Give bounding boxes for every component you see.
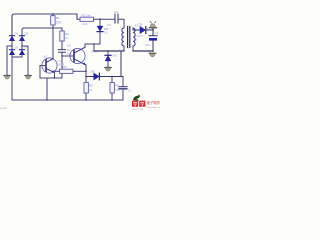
watermark logo leaf: [133, 96, 140, 101]
wire drop to mid rail: [93, 44, 95, 51]
svg-text:473: 473: [107, 23, 112, 27]
svg-text:R4: R4: [63, 65, 67, 69]
wire Q2 collector up: [84, 44, 86, 47]
diode D7 mid column: [105, 51, 111, 67]
wire primary bottom: [123, 46, 125, 51]
svg-text:1K: 1K: [89, 88, 92, 92]
wire Q1 emitter down: [54, 73, 56, 78]
resistor R1: [51, 16, 55, 25]
svg-text:51K: 51K: [56, 20, 63, 24]
diode D5: [140, 27, 146, 34]
svg-text:V2: V2: [67, 44, 71, 48]
svg-text:100K: 100K: [82, 22, 88, 26]
diode D6: [94, 73, 100, 80]
wire bridge left mid column: [11, 41, 13, 50]
wire y78 segment: [40, 77, 62, 79]
wire R1 bottom long vertical to Q1 collector: [52, 25, 54, 59]
wire R3 to C2: [61, 41, 63, 49]
svg-text:C4: C4: [155, 31, 159, 35]
wire down to bottom rail: [46, 78, 48, 100]
wire D6 right segment: [100, 76, 123, 78]
svg-text:1K: 1K: [65, 36, 68, 40]
wire Q2 emitter column: [85, 65, 87, 83]
diode D3: [9, 50, 14, 55]
capacitor C5: [119, 77, 127, 101]
wire D5 to output node: [146, 29, 154, 31]
capacitor C3: [115, 14, 118, 23]
diode D1: [9, 36, 14, 41]
svg-text:www.dzdiy.com: www.dzdiy.com: [147, 107, 160, 109]
watermark logo char 1: [132, 101, 138, 107]
svg-text:FR107: FR107: [136, 34, 144, 38]
svg-text:D6: D6: [91, 70, 95, 74]
svg-text:DZDIY.COM: DZDIY.COM: [132, 109, 144, 110]
wire y44 line: [85, 43, 100, 45]
wire AC jog right: [22, 46, 28, 75]
wire top rail B+: [12, 14, 77, 36]
resistor R3: [60, 31, 64, 41]
resistor R2: [77, 17, 115, 21]
svg-text:D1: D1: [15, 31, 19, 35]
junction dots: [11, 13, 154, 101]
zener DW1: [97, 19, 103, 44]
wire mid rail left: [94, 50, 124, 52]
transistor V1: [40, 58, 57, 73]
resistor R5: [84, 83, 88, 101]
svg-text:D3: D3: [15, 45, 19, 49]
terminal output plus (top): [149, 21, 156, 30]
wire bottom rail: [12, 99, 123, 101]
transformer T1 secondary winding: [133, 28, 135, 46]
capacitor C2: [59, 50, 66, 53]
svg-text:jx.dz: jx.dz: [0, 106, 7, 110]
svg-text:D4: D4: [25, 45, 29, 49]
wire mid rail right: [133, 50, 153, 52]
transistor V2: [70, 47, 86, 65]
svg-text:电子制作: 电子制作: [147, 100, 160, 105]
svg-text:B: B: [136, 37, 138, 41]
svg-text:15V: 15V: [104, 31, 109, 35]
wire secondary bottom: [132, 46, 134, 51]
wire Q2 base lead: [62, 55, 74, 57]
svg-text:R2 1W: R2 1W: [82, 14, 91, 18]
wire C3 to transformer: [119, 19, 125, 28]
svg-text:C3: C3: [114, 10, 118, 14]
svg-text:C2: C2: [67, 48, 71, 52]
wire R1 top lead: [52, 14, 54, 16]
wire riser from mid rail: [120, 51, 122, 77]
transformer T1 primary winding: [122, 28, 124, 46]
wire C2 bottom / Q2 base tap: [61, 53, 63, 78]
transformer T1 core: [128, 27, 130, 48]
terminal output bottom: [149, 53, 156, 57]
terminal AC left: [4, 75, 10, 79]
svg-text:C5: C5: [128, 88, 132, 92]
resistor R4: [55, 69, 87, 73]
svg-text:DW2: DW2: [112, 54, 118, 58]
wire AC jog left: [7, 46, 12, 75]
svg-text:V1: V1: [44, 55, 48, 59]
wire bridge right mid column: [21, 41, 23, 50]
svg-text:103: 103: [57, 60, 62, 63]
svg-text:100u: 100u: [145, 43, 151, 47]
wire y76.5 feedback line: [86, 76, 94, 78]
svg-text:DW: DW: [104, 27, 109, 31]
wire bridge negative down to bottom rail: [11, 55, 13, 100]
watermark logo char 2: [139, 101, 145, 107]
wire bridge second net y=28: [22, 28, 62, 36]
wire secondary top to D5: [133, 28, 140, 30]
svg-text:D2: D2: [25, 31, 29, 35]
terminal mid: [105, 67, 111, 71]
resistor R6: [110, 77, 114, 101]
svg-text:R5: R5: [89, 84, 93, 88]
capacitor C4 electrolytic: [149, 30, 157, 51]
svg-text:R3: R3: [65, 32, 69, 36]
diode D4: [19, 50, 24, 55]
terminal AC right: [25, 75, 31, 79]
svg-text:D5: D5: [139, 23, 143, 27]
wire Q1 base down: [39, 66, 41, 79]
wire bridge bottom merge: [12, 55, 22, 57]
svg-text:+: +: [146, 27, 148, 31]
diode D2: [19, 36, 24, 41]
